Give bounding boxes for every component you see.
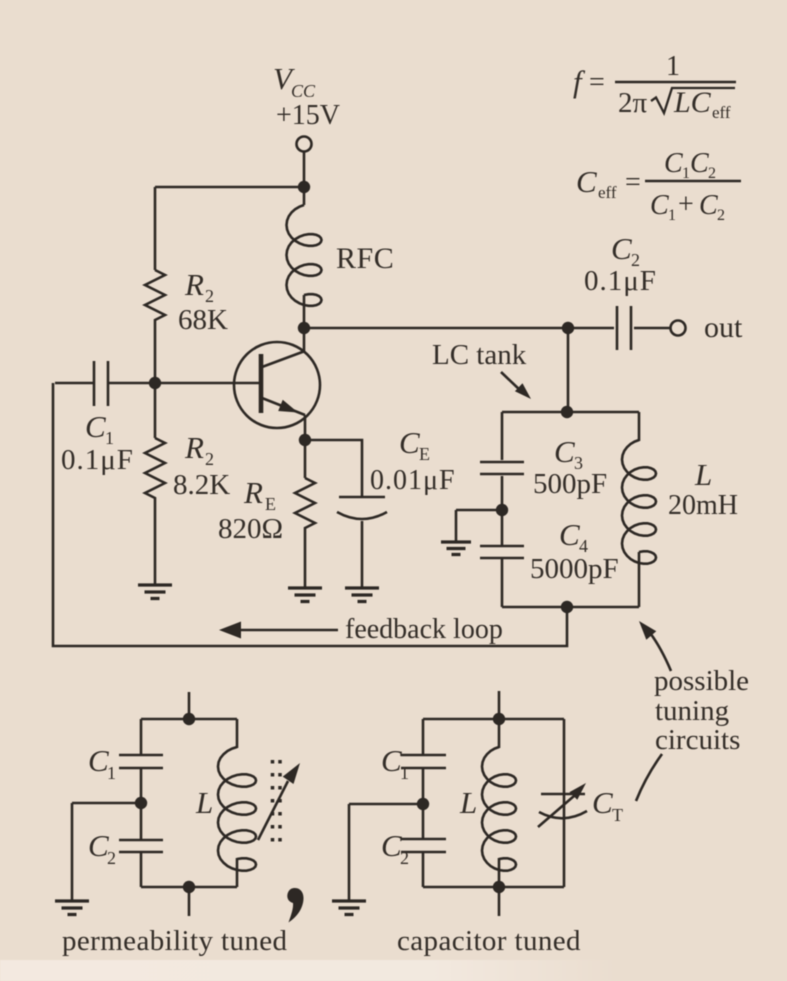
svg-text:C: C (650, 190, 669, 221)
svg-text:=: = (589, 67, 605, 98)
svg-text:0.1μF: 0.1μF (61, 444, 134, 476)
svg-text:68K: 68K (178, 304, 228, 336)
svg-text:out: out (704, 311, 743, 344)
svg-text:R: R (184, 267, 204, 302)
svg-text:T: T (612, 805, 623, 825)
svg-text:C: C (554, 434, 575, 469)
svg-text:2: 2 (205, 286, 214, 306)
svg-text:C: C (664, 148, 683, 179)
svg-text:circuits: circuits (655, 724, 740, 756)
svg-text:R: R (243, 475, 263, 510)
svg-text:+: + (678, 189, 694, 220)
svg-text:1: 1 (107, 763, 116, 783)
svg-text:C: C (559, 517, 580, 552)
svg-text:tuning: tuning (655, 695, 729, 727)
svg-text:C: C (399, 425, 420, 460)
svg-text:1: 1 (400, 763, 409, 783)
svg-text:820Ω: 820Ω (218, 513, 283, 545)
svg-text:LC: LC (673, 86, 712, 119)
svg-text:capacitor tuned: capacitor tuned (397, 925, 581, 957)
svg-text:eff: eff (712, 103, 731, 122)
svg-text:LC tank: LC tank (432, 339, 527, 371)
svg-text:2: 2 (708, 165, 716, 182)
svg-text:1: 1 (666, 51, 680, 82)
svg-text:1: 1 (668, 207, 676, 224)
svg-text:R: R (184, 430, 204, 465)
svg-text:eff: eff (598, 183, 617, 202)
svg-text:2: 2 (400, 848, 409, 868)
svg-text:C: C (88, 743, 109, 778)
svg-text:permeability tuned: permeability tuned (62, 925, 288, 957)
svg-text:=: = (625, 167, 641, 198)
svg-text:8.2K: 8.2K (173, 469, 230, 501)
svg-text:500pF: 500pF (533, 468, 607, 500)
svg-text:C: C (611, 231, 632, 266)
svg-text:0.01μF: 0.01μF (370, 465, 456, 496)
svg-text:+15V: +15V (276, 100, 340, 131)
svg-text:2: 2 (107, 848, 116, 868)
svg-text:2: 2 (717, 207, 725, 224)
svg-text:C: C (699, 190, 718, 221)
svg-text:CC: CC (291, 81, 316, 101)
svg-text:0.1μF: 0.1μF (584, 265, 657, 297)
svg-text:2π: 2π (618, 87, 648, 119)
svg-text:feedback loop: feedback loop (345, 614, 503, 645)
svg-text:C: C (690, 148, 709, 179)
svg-text:2: 2 (205, 449, 214, 469)
svg-text:E: E (265, 494, 276, 514)
svg-text:L: L (195, 785, 213, 820)
svg-text:RFC: RFC (336, 242, 394, 275)
svg-text:C: C (88, 828, 109, 863)
svg-text:20mH: 20mH (668, 490, 738, 521)
svg-text:C: C (381, 743, 402, 778)
svg-text:L: L (459, 785, 477, 820)
svg-text:possible: possible (654, 665, 749, 697)
svg-text:C: C (576, 164, 597, 199)
svg-text:1: 1 (682, 165, 690, 182)
svg-text:E: E (419, 444, 430, 464)
svg-text:C: C (592, 785, 613, 820)
svg-text:5000pF: 5000pF (530, 553, 619, 585)
svg-text:L: L (694, 457, 712, 492)
svg-text:C: C (85, 409, 106, 444)
svg-text:C: C (381, 828, 402, 863)
